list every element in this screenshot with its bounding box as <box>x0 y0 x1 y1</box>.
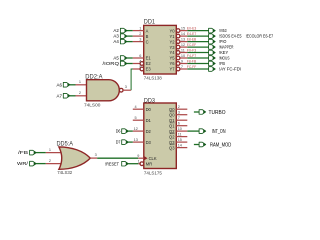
DD1 pin 6 stub <box>133 57 144 59</box>
svg-text:Y6: Y6 <box>169 61 175 66</box>
DD1 output Y7 stub <box>180 68 187 70</box>
wire A2 to DD1 <box>127 30 133 32</box>
DD3 pin 15 stub <box>176 141 187 143</box>
svg-text:E1: E1 <box>146 56 152 61</box>
wire !RESET to DD3 MR <box>128 163 138 165</box>
svg-text:D2: D2 <box>146 129 152 134</box>
DD1 pin 2 stub <box>133 35 144 37</box>
DD1 output Y2 bubble <box>176 40 180 44</box>
wire TURBO <box>194 111 199 113</box>
DD5:A output pin 3 stub <box>90 157 97 159</box>
svg-text:MR: MR <box>146 161 152 166</box>
input port arrow A2 <box>120 28 127 33</box>
input port arrow A4 <box>120 39 127 44</box>
input port arrow A7 <box>63 93 70 98</box>
svg-text:EC-EF: EC-EF <box>187 42 197 47</box>
output port arrow !AY FC-FD\ <box>209 67 216 72</box>
DD2:A output bubble <box>119 88 123 92</box>
output port arrow !MOUS <box>209 56 216 61</box>
svg-text:1: 1 <box>79 80 81 84</box>
svg-text:A4: A4 <box>113 39 119 44</box>
input port arrow /IORQ <box>120 61 127 66</box>
svg-text:F0-F3: F0-F3 <box>187 48 197 53</box>
wire A7 to DD2:A <box>70 95 76 97</box>
wire net F0-F3 from DD1 Y4 <box>187 52 208 54</box>
wire net FC-FF from DD1 Y7 <box>187 68 208 70</box>
IC DD3 74LS175 quad D flip-flop body <box>144 103 177 169</box>
output port arrow TURBO <box>199 110 206 115</box>
svg-text:D1: D1 <box>146 118 152 123</box>
svg-text:6: 6 <box>178 122 180 126</box>
OR gate DD5:A input pin 1 stub <box>46 152 64 154</box>
svg-text:12: 12 <box>134 127 138 131</box>
input port arrow A6 <box>63 82 70 87</box>
svg-text:Y7: Y7 <box>169 67 175 72</box>
wire net F8-FB from DD1 Y6 <box>187 63 208 65</box>
input port arrow WR/ <box>30 161 37 166</box>
output port arrow RAM_MOD <box>199 142 206 147</box>
svg-text:2: 2 <box>178 105 180 109</box>
svg-text:7: 7 <box>178 116 180 120</box>
svg-text:74LS00: 74LS00 <box>84 102 101 108</box>
DD3 MR bubble <box>140 162 144 166</box>
DD1 output Y0 bubble <box>176 29 180 33</box>
DD3 pin 4 stub <box>133 108 144 110</box>
DD1 output Y3 bubble <box>176 45 180 49</box>
svg-text:3: 3 <box>125 85 127 89</box>
svg-text:Q3: Q3 <box>169 145 175 150</box>
svg-text:DD2:A: DD2:A <box>85 74 103 81</box>
DD1 pin 5 bubble <box>140 67 144 71</box>
DD1 pin 1 stub <box>133 30 144 32</box>
svg-text:/FB: /FB <box>18 150 28 155</box>
output port arrow !VI53 <box>209 28 216 33</box>
wire /IORQ to DD1 <box>127 63 133 65</box>
svg-text:74LS32: 74LS32 <box>57 170 72 176</box>
svg-text:D0: D0 <box>146 107 152 112</box>
svg-text:15: 15 <box>181 27 185 31</box>
svg-text:9: 9 <box>137 154 139 158</box>
svg-text:DD5:A: DD5:A <box>57 141 74 148</box>
svg-text:!FB: !FB <box>219 61 225 66</box>
DD3 pin 6 stub <box>176 125 187 127</box>
svg-text:DD1: DD1 <box>144 19 156 26</box>
wire INT_ON from DD3 Q2 <box>187 130 199 132</box>
svg-text:12: 12 <box>181 43 185 47</box>
svg-text:3: 3 <box>178 111 180 115</box>
svg-text:CLK: CLK <box>149 156 157 161</box>
svg-text:A7: A7 <box>57 93 63 98</box>
input port arrow D6 <box>122 129 129 134</box>
wire net EC-EF from DD1 Y3 <box>187 46 208 48</box>
svg-text:!KEY: !KEY <box>219 50 228 55</box>
svg-text:!MAPPER: !MAPPER <box>219 45 233 50</box>
svg-text:A2: A2 <box>113 28 119 33</box>
DD1 output Y1 bubble <box>176 34 180 38</box>
wire DD5:A output to DD3 CLK <box>97 157 138 159</box>
svg-text:13: 13 <box>181 38 185 42</box>
wire /FB to DD5:A <box>36 152 46 154</box>
DD1 output Y6 stub <box>180 63 187 65</box>
DD1 output Y5 bubble <box>176 56 180 60</box>
DD1 pin 3 stub <box>133 41 144 43</box>
svg-text:F4-F7: F4-F7 <box>187 53 197 58</box>
svg-text:B: B <box>146 34 149 39</box>
svg-text:Y4: Y4 <box>169 50 175 55</box>
DD1 output Y3 stub <box>180 46 187 48</box>
svg-text:!MOUS: !MOUS <box>219 56 230 61</box>
DD3 pin 14 stub <box>176 147 187 149</box>
wire RAM_MOD <box>194 144 199 146</box>
DD1 output Y1 stub <box>180 35 187 37</box>
svg-text:!ECOLOR E6-E7: !ECOLOR E6-E7 <box>246 34 274 39</box>
svg-text:2: 2 <box>49 159 51 163</box>
svg-text:/IORQ: /IORQ <box>103 61 120 66</box>
output port arrow !MAPPER <box>209 45 216 50</box>
DD1 output Y5 stub <box>180 57 187 59</box>
svg-text:C: C <box>146 39 149 44</box>
DD3 overline for !Q0 <box>170 111 175 113</box>
DD3 pin 3 stub <box>176 114 187 116</box>
svg-text:74LS175: 74LS175 <box>144 171 162 177</box>
NAND gate DD2:A input pin 2 stub <box>76 95 87 97</box>
OR gate DD5:A body (74LS32) <box>59 147 90 169</box>
svg-text:Q0: Q0 <box>169 112 175 117</box>
svg-text:5: 5 <box>134 116 136 120</box>
svg-text:10: 10 <box>181 54 185 58</box>
svg-text:INT_ON: INT_ON <box>212 129 226 135</box>
svg-text:4: 4 <box>139 59 141 63</box>
DD2:A output pin 3 stub <box>123 89 131 91</box>
svg-text:2: 2 <box>139 32 141 36</box>
DD1 output Y0 stub <box>180 30 187 32</box>
svg-text:1: 1 <box>49 148 51 152</box>
svg-text:E8-EB: E8-EB <box>187 37 197 42</box>
svg-text:15: 15 <box>178 138 182 142</box>
wire A3 to DD1 <box>127 35 133 37</box>
svg-text:!SDOS E4-E5: !SDOS E4-E5 <box>219 34 242 39</box>
wire net F4-F7 from DD1 Y5 <box>187 57 208 59</box>
DD1 output Y4 bubble <box>176 51 180 55</box>
svg-text:Q1: Q1 <box>169 118 175 123</box>
svg-text:E4-E7: E4-E7 <box>187 31 197 36</box>
svg-text:F8-FB: F8-FB <box>187 59 197 64</box>
wire D6 to DD3 <box>128 130 133 132</box>
NAND gate DD2:A input pin 1 stub <box>76 84 87 86</box>
svg-text:7: 7 <box>181 65 183 69</box>
DD3 pin 12 stub <box>133 130 144 132</box>
IC DD1 74LS138 3-to-8 decoder body <box>144 25 177 74</box>
DD3 pin 5 stub <box>133 119 144 121</box>
svg-text:2: 2 <box>79 91 81 95</box>
DD1 pin 4 stub (active-low) <box>133 63 141 65</box>
svg-text:!PIO: !PIO <box>219 39 227 44</box>
svg-text:A3: A3 <box>113 34 119 39</box>
svg-text:D6: D6 <box>116 129 121 134</box>
DD3 pin 11 stub <box>176 136 187 138</box>
OR gate DD5:A input pin 2 stub <box>46 163 64 165</box>
svg-text:!RESET: !RESET <box>105 161 119 166</box>
svg-text:Y5: Y5 <box>169 56 175 61</box>
svg-text:14: 14 <box>181 32 185 36</box>
DD1 pin 5 stub (active-low) <box>133 68 141 70</box>
svg-text:A: A <box>146 28 149 33</box>
svg-text:Y3: Y3 <box>169 45 175 50</box>
input port arrow A5 <box>120 56 127 61</box>
DD3 CLK pin 9 stub <box>138 157 144 159</box>
svg-text:E2: E2 <box>146 61 152 66</box>
DD1 pin 4 bubble <box>140 62 144 66</box>
input port arrow /FB <box>30 150 37 155</box>
svg-text:A5: A5 <box>113 56 119 61</box>
svg-text:D7: D7 <box>116 140 121 145</box>
input port arrow A3 <box>120 34 127 39</box>
DD3 CLK edge triangle <box>144 156 148 161</box>
wire D7 to DD3 <box>128 141 133 143</box>
svg-text:E3: E3 <box>146 67 152 72</box>
svg-text:74LS138: 74LS138 <box>144 76 162 82</box>
DD3 overline for !Q2 <box>170 133 175 135</box>
svg-text:E0-E3: E0-E3 <box>187 26 197 31</box>
svg-text:RAM_MOD: RAM_MOD <box>210 143 231 149</box>
svg-text:1: 1 <box>138 159 140 163</box>
output port arrow !KEY <box>209 50 216 55</box>
svg-text:9: 9 <box>181 60 183 64</box>
wire WR/ to DD5:A <box>36 163 46 165</box>
DD1 output Y7 bubble <box>176 67 180 71</box>
svg-text:DD3: DD3 <box>144 97 155 104</box>
svg-text:Q2: Q2 <box>169 129 175 134</box>
output port arrow !FB <box>209 61 216 66</box>
svg-text:!VI53: !VI53 <box>219 28 227 33</box>
DD1 output Y2 stub <box>180 41 187 43</box>
wire A4 to DD1 <box>127 41 133 43</box>
NAND gate DD2:A body (74LS00) <box>87 80 120 101</box>
svg-text:11: 11 <box>178 133 182 137</box>
DD3 pin 2 stub <box>176 108 187 110</box>
DD3 pin 13 stub <box>133 141 144 143</box>
svg-text:WR/: WR/ <box>17 161 29 166</box>
wire DD2:A output to DD1 pin 5 (node E3) <box>131 69 133 90</box>
svg-text:6: 6 <box>139 54 141 58</box>
svg-text:D3: D3 <box>146 140 152 145</box>
svg-text:1: 1 <box>139 26 141 30</box>
wire net E0-E3 from DD1 Y0 <box>187 30 208 32</box>
svg-text:13: 13 <box>134 138 138 142</box>
svg-text:14: 14 <box>178 144 182 148</box>
svg-text:10: 10 <box>178 127 182 131</box>
svg-text:Y2: Y2 <box>169 39 175 44</box>
svg-text:TURBO: TURBO <box>209 110 227 116</box>
svg-text:A6: A6 <box>57 82 63 87</box>
DD3 pin 10 stub <box>176 130 187 132</box>
DD3 MR pin 1 stub <box>138 163 140 165</box>
wire net E4-E7 from DD1 Y1 <box>187 35 208 37</box>
DD1 output Y6 bubble <box>176 62 180 66</box>
svg-text:Y1: Y1 <box>169 34 175 39</box>
DD1 output Y4 stub <box>180 52 187 54</box>
svg-text:11: 11 <box>181 49 185 53</box>
svg-text:Q2: Q2 <box>169 134 175 139</box>
DD3 overline for !Q1 <box>170 122 175 124</box>
DD3 pin 7 stub <box>176 119 187 121</box>
wire A6 to DD2:A <box>70 84 76 86</box>
svg-text:!AY FC-FD\: !AY FC-FD\ <box>219 67 242 72</box>
svg-text:Q3: Q3 <box>169 140 175 145</box>
output port arrow !PIO <box>209 39 216 44</box>
wire A5 to DD1 <box>127 57 133 59</box>
svg-text:3: 3 <box>139 37 141 41</box>
svg-text:3: 3 <box>95 153 97 157</box>
svg-text:5: 5 <box>139 65 141 69</box>
svg-text:Y0: Y0 <box>169 28 175 33</box>
svg-text:Q1: Q1 <box>169 123 175 128</box>
svg-text:4: 4 <box>134 105 136 109</box>
output port arrow INT_ON <box>199 129 206 134</box>
wire net E8-EB from DD1 Y2 <box>187 41 208 43</box>
svg-text:FC-FF: FC-FF <box>187 64 197 69</box>
DD3 overline for !Q3 <box>170 144 175 146</box>
output port arrow !SDOS E4-E5 <box>209 34 216 39</box>
input port arrow D7 <box>122 140 129 145</box>
svg-text:Q0: Q0 <box>169 107 175 112</box>
input port arrow !RESET <box>122 161 129 166</box>
